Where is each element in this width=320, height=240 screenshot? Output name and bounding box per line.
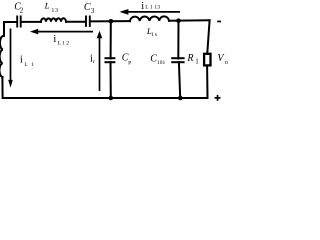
svg-text:C: C [84,2,91,13]
svg-text:1: 1 [151,32,154,38]
svg-text:1: 1 [62,41,65,47]
svg-text:s: s [155,32,157,38]
svg-text:3: 3 [55,8,58,14]
svg-text:i: i [141,1,144,12]
svg-text:1: 1 [51,8,54,14]
svg-text:3: 3 [157,5,160,11]
svg-text:R: R [186,53,193,64]
svg-text:i: i [53,34,56,45]
svg-text:2: 2 [20,7,24,14]
svg-text:L: L [145,5,149,11]
svg-text:1: 1 [195,57,199,65]
svg-text:101: 101 [157,60,165,66]
svg-text:L: L [58,41,62,47]
svg-text:P: P [128,61,131,67]
svg-text:r: r [93,59,95,65]
svg-text:i: i [20,55,23,66]
svg-text:1: 1 [150,5,153,11]
svg-text:o: o [225,59,228,66]
svg-text:L: L [24,62,28,68]
svg-text:1: 1 [31,62,34,68]
svg-text:L: L [44,1,50,11]
svg-text:3: 3 [91,8,95,15]
svg-text:2: 2 [66,41,69,47]
